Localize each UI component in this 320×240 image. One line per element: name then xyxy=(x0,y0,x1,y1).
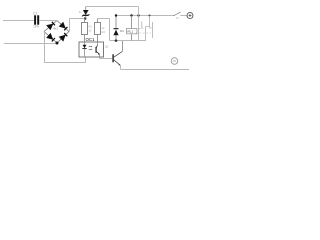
bridge diode lower-right xyxy=(59,35,66,42)
relay contact A xyxy=(138,7,140,41)
wire AC input top xyxy=(3,20,34,22)
wire R2 top loop xyxy=(98,18,110,20)
wire AC input bottom xyxy=(4,43,57,45)
terminal minus output xyxy=(171,58,178,65)
junction dot coil top xyxy=(130,14,132,16)
optocoupler LED xyxy=(84,42,86,45)
relay mechanical link dashed xyxy=(136,32,151,34)
junction dot bridge bottom corner xyxy=(56,42,59,45)
relay coil RL1 xyxy=(131,16,133,29)
wire capacitor to bridge xyxy=(39,20,56,22)
junction dot D1 bottom xyxy=(115,39,118,42)
resistor R1 xyxy=(84,19,86,23)
wire opto emitter to Q1 base xyxy=(100,58,113,60)
junction dot contact A rail xyxy=(137,14,139,16)
capacitor C1 xyxy=(34,15,36,24)
svg-text:Br1: Br1 xyxy=(54,27,59,31)
terminal plus output xyxy=(187,13,193,19)
bridge rectifier BR1 xyxy=(44,21,57,32)
wire Q1 emitter to output xyxy=(120,65,122,69)
junction dot contact B top xyxy=(149,15,151,17)
wire bridge minus loop xyxy=(44,32,46,63)
optocoupler phototransistor xyxy=(97,42,99,45)
svg-text:104: 104 xyxy=(33,25,39,29)
wire relay bottom rail xyxy=(110,40,147,42)
wire relay output rail xyxy=(116,15,174,17)
svg-text:RL1: RL1 xyxy=(128,30,134,34)
optocoupler OC1 box xyxy=(79,42,104,57)
bridge diode lower-left xyxy=(46,33,53,40)
svg-text:C1: C1 xyxy=(33,11,38,15)
svg-text:Q1: Q1 xyxy=(105,45,109,49)
svg-text:D1: D1 xyxy=(120,29,124,33)
wire bridge plus to zener xyxy=(69,19,71,32)
bridge diode upper-left xyxy=(46,24,53,31)
resistor R2 xyxy=(97,19,99,23)
diode D1 flyback xyxy=(115,16,117,29)
zener diode ZD1 xyxy=(85,16,87,19)
optocoupler light arrows xyxy=(89,46,92,48)
switch S1 xyxy=(173,15,174,16)
relay contact B xyxy=(149,16,151,29)
transistor Q1 xyxy=(112,54,113,62)
bridge diode upper-right xyxy=(59,22,66,29)
junction dot rail corner xyxy=(115,14,117,16)
wire top supply rail xyxy=(86,6,139,8)
svg-text:OC1: OC1 xyxy=(86,37,96,42)
svg-text:R2: R2 xyxy=(102,30,106,34)
junction node zener R1 xyxy=(84,17,86,19)
